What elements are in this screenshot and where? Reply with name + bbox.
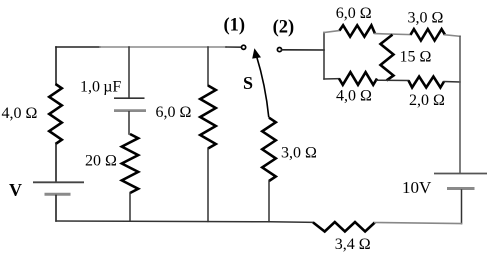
wire bridge bottom-right stub (444, 81, 460, 84)
svg-text:10V: 10V (402, 178, 432, 197)
battery V long plate (33, 181, 84, 183)
svg-text:15 Ω: 15 Ω (400, 48, 432, 65)
wire left rail upper (55, 47, 57, 84)
svg-text:(2): (2) (273, 17, 295, 37)
wire bottom bus right (375, 223, 462, 224)
svg-text:4,0 Ω: 4,0 Ω (2, 105, 38, 122)
wire bridge top-left stub (324, 31, 340, 33)
wire bridge left bus (323, 33, 325, 80)
svg-text:3,0 Ω: 3,0 Ω (281, 144, 317, 161)
resistor R 2,0 ohm bridge (409, 77, 445, 88)
wire terminal 2 to bridge (282, 49, 324, 51)
wire right rail lower (461, 190, 463, 224)
resistor R 3,0 ohm switch branch (262, 118, 276, 181)
wire 3,0 ohm to bottom bus (268, 181, 270, 222)
resistor R 3,4 ohm bottom (313, 222, 375, 232)
wire capacitor to 20 ohm (128, 112, 130, 134)
resistor R 6,0 ohm bridge (340, 25, 376, 36)
wire bottom bus left (56, 221, 313, 222)
wire 6,0 ohm branch lower (207, 149, 209, 222)
resistor R 3,0 ohm bridge (411, 29, 446, 40)
resistor R 20 ohm (122, 134, 138, 193)
wire top bus left (56, 46, 100, 48)
svg-text:2,0 Ω: 2,0 Ω (409, 92, 445, 109)
resistor R 6,0 ohm middle (200, 86, 216, 149)
wire bridge top middle (375, 34, 411, 35)
capacitor C 1,0 uF bottom plate (114, 109, 146, 112)
svg-text:3,4 Ω: 3,4 Ω (335, 236, 371, 253)
switch S arm (256, 55, 269, 118)
wire 20 ohm to bottom bus (129, 193, 131, 221)
battery V short plate (45, 193, 71, 196)
svg-text:S: S (243, 73, 253, 93)
svg-text:6,0 Ω: 6,0 Ω (336, 5, 372, 22)
resistor R 4,0 ohm bridge (339, 72, 377, 85)
svg-text:3,0 Ω: 3,0 Ω (408, 10, 444, 27)
wire top bus near terminal 1 (226, 46, 241, 48)
svg-text:V: V (9, 180, 22, 200)
wire 6,0 ohm branch upper (207, 47, 209, 86)
svg-text:6,0 Ω: 6,0 Ω (156, 104, 192, 121)
resistor R 15 ohm bridge middle (381, 35, 394, 81)
svg-text:1,0 µF: 1,0 µF (80, 78, 121, 95)
svg-text:20 Ω: 20 Ω (85, 153, 117, 170)
wire battery V to bottom bus (55, 196, 57, 222)
terminal 2 circle (277, 48, 281, 52)
svg-text:4,0 Ω: 4,0 Ω (336, 88, 372, 105)
resistor R 4,0 ohm left (49, 84, 62, 144)
capacitor branch wire upper (128, 47, 130, 98)
wire bridge bottom middle (377, 79, 409, 81)
switch S arrowhead (252, 48, 261, 58)
svg-text:(1): (1) (224, 16, 246, 36)
battery 10V long plate (434, 173, 487, 175)
capacitor C 1,0 uF top plate (114, 97, 145, 99)
battery 10V short plate (447, 187, 475, 190)
wire left rail lower (55, 144, 57, 182)
wire bridge bottom-left stub (324, 78, 339, 80)
wire top bus right to terminal 1 (100, 46, 226, 48)
terminal 1 circle (242, 45, 246, 49)
wire right rail upper (459, 36, 461, 173)
wire bridge top-right stub (445, 35, 460, 37)
